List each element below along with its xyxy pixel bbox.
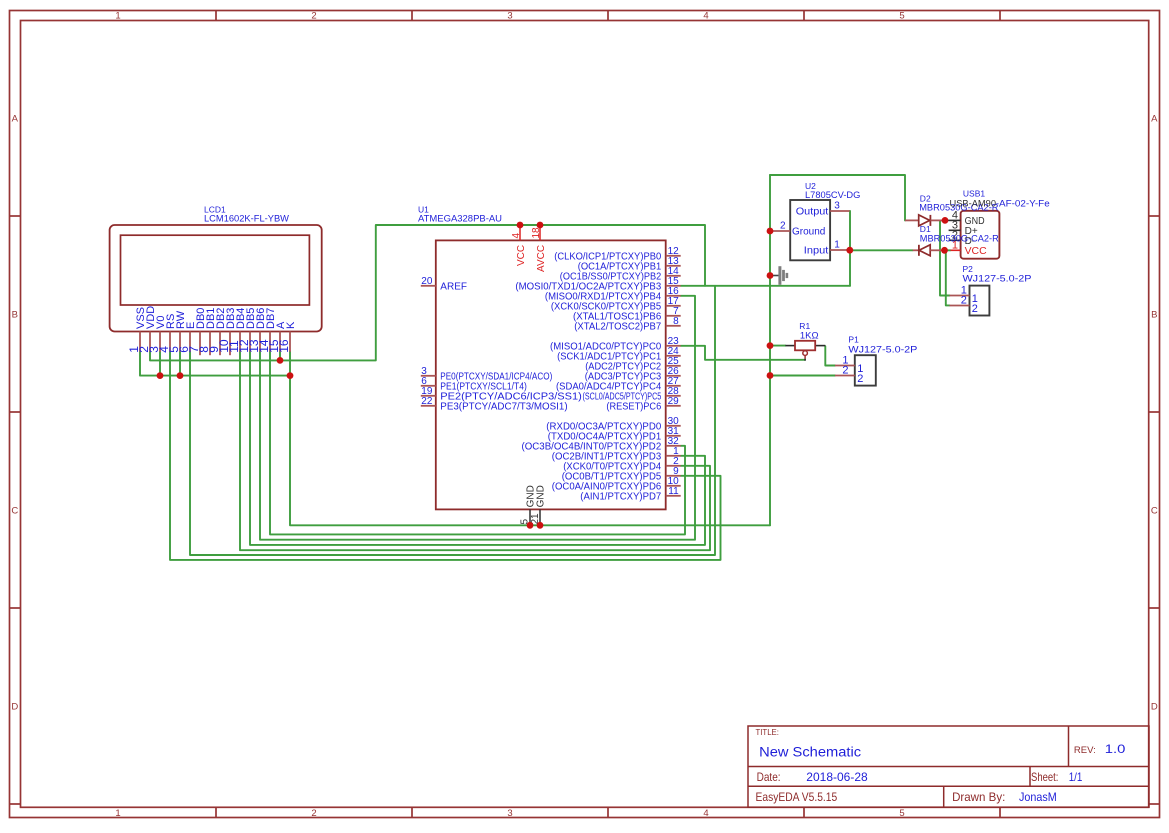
svg-text:2: 2 (842, 365, 848, 377)
svg-text:1: 1 (115, 10, 120, 21)
U1 pin 24 PC1 (666, 355, 681, 357)
U1 pin 14 PB2 (666, 275, 681, 277)
U1 pin 19 PE2( (421, 395, 436, 397)
U1 pin 26 PC3 (666, 375, 681, 377)
wire U2 output drop (849, 211, 851, 286)
LCD1 pin 6 E (189, 332, 191, 352)
svg-text:GND: GND (536, 485, 547, 507)
svg-text:2: 2 (961, 295, 967, 307)
U1 pin 20 AREF (421, 285, 436, 287)
LCD module LCD1 body (110, 225, 322, 332)
wire R1 left to GND net (770, 345, 785, 347)
svg-text:2: 2 (780, 221, 786, 232)
diode D2 (905, 219, 919, 221)
U1 pin 5 GND (529, 509, 531, 525)
LCD1 pin 12 DB5 (249, 332, 251, 352)
svg-text:5: 5 (899, 10, 904, 21)
svg-text:VCC: VCC (516, 245, 527, 266)
connector USB1 body (961, 211, 1000, 259)
svg-text:MBR0530G-CA2-R: MBR0530G-CA2-R (920, 233, 999, 244)
svg-text:REV:: REV: (1074, 745, 1096, 756)
svg-text:TITLE:: TITLE: (756, 727, 779, 737)
wire LCD E to PB3 net (190, 286, 715, 555)
svg-text:3: 3 (834, 201, 840, 212)
LCD1 pin 2 VDD (149, 332, 151, 352)
wire D1 anode to P2 pin2 (945, 250, 950, 305)
svg-text:USB-AM90: USB-AM90 (950, 199, 997, 210)
U1 pin 8 PB7 (666, 325, 681, 327)
svg-text:11: 11 (668, 486, 679, 497)
U1 pin 18 AVCC (539, 225, 541, 240)
wire LCD pin16 down to GND rail (290, 352, 770, 526)
LCD1 pin 3 V0 (159, 332, 161, 352)
wire LCD pin15 stub (279, 352, 281, 361)
P2 pin 1 (950, 295, 970, 297)
LCD1 pin 11 DB4 (239, 332, 241, 352)
svg-text:1/1: 1/1 (1069, 770, 1083, 784)
USB1 pin 2 D- (949, 239, 961, 241)
svg-text:3: 3 (507, 10, 512, 21)
LCD1 pin 14 DB7 (269, 332, 271, 352)
wire GND top loop to D2 anode (770, 175, 905, 220)
wire stub USB VCC (945, 249, 951, 251)
svg-text:LCM1602K-FL-YBW: LCM1602K-FL-YBW (204, 213, 289, 224)
LCD1 pin 16 K (289, 332, 291, 352)
svg-text:16: 16 (277, 339, 291, 353)
svg-text:29: 29 (668, 396, 680, 407)
wire LCD DB7 to U1 PD2 (270, 352, 685, 535)
svg-text:Date:: Date: (757, 770, 781, 784)
svg-text:1: 1 (115, 808, 120, 819)
U1 pin 28 PC5 (666, 395, 681, 397)
svg-text:Output: Output (796, 206, 829, 217)
svg-text:Sheet:: Sheet: (1031, 770, 1058, 784)
U1 pin 27 PC4 (666, 385, 681, 387)
U1 pin 32 PD2 (666, 445, 681, 447)
title block (748, 726, 1149, 807)
svg-text:4: 4 (703, 808, 708, 819)
U1 pin 12 PB0 (666, 255, 681, 257)
wire LCD DB4 to U1 PD4 (240, 352, 710, 550)
svg-text:New Schematic: New Schematic (759, 744, 861, 759)
svg-text:8: 8 (673, 316, 679, 327)
svg-text:AVCC: AVCC (536, 245, 547, 272)
svg-text:2: 2 (311, 808, 316, 819)
MCU U1 body (436, 240, 666, 509)
U2 pin 3 Output (830, 210, 850, 212)
wire LCD DB6 to U1 PB4 (260, 296, 695, 540)
svg-text:Ground: Ground (792, 227, 825, 238)
USB1 pin 1 VCC (951, 249, 961, 251)
LCD1 pin 7 DB0 (199, 332, 201, 356)
svg-text:(RESET)PC6: (RESET)PC6 (606, 401, 661, 412)
U1 pin 23 PC0 (666, 345, 681, 347)
svg-text:5: 5 (899, 808, 904, 819)
U1 pin 22 PE3( (421, 405, 436, 407)
wire LCD pin5 stub (179, 352, 181, 376)
svg-text:EasyEDA V5.5.15: EasyEDA V5.5.15 (756, 790, 838, 804)
svg-text:4: 4 (511, 233, 522, 239)
U1 pin 29 PC6 (666, 405, 681, 407)
wire R1 right to P1 pin1 (825, 346, 835, 365)
ground (770, 275, 779, 277)
svg-text:P2: P2 (963, 264, 974, 274)
USB1 pin 3 D+ (949, 229, 961, 231)
wire LCD VSS/V0/RW/K ground rail (140, 352, 290, 376)
svg-text:Drawn By:: Drawn By: (952, 790, 1005, 804)
svg-text:WJ127-5.0-2P: WJ127-5.0-2P (963, 274, 1032, 285)
U1 pin 11 PD7 (666, 495, 681, 497)
U1 pin 21 GND (539, 509, 541, 525)
svg-text:Input: Input (804, 245, 829, 256)
connector P1 body (855, 355, 876, 385)
svg-text:B: B (12, 310, 18, 321)
R1 wiper (803, 351, 808, 356)
svg-text:A: A (12, 114, 19, 125)
LCD1 pin 4 RS (169, 332, 171, 352)
svg-text:2: 2 (972, 303, 978, 315)
svg-text:JonasM: JonasM (1019, 790, 1057, 804)
svg-text:18: 18 (531, 227, 542, 239)
LCD1 pin 1 VSS (139, 332, 141, 352)
LCD1 pin 13 DB6 (259, 332, 261, 352)
wire VCC rail from LCD VDD to U1 VCC and down to 5V net (150, 225, 705, 360)
P1 pin 2 (835, 375, 855, 377)
wire LCD pin3 stub (159, 352, 161, 376)
svg-text:WJ127-5.0-2P: WJ127-5.0-2P (848, 345, 917, 356)
svg-text:PE3(PTCY/ADC7/T3/MOSI1): PE3(PTCY/ADC7/T3/MOSI1) (440, 401, 567, 412)
svg-text:VCC: VCC (965, 246, 987, 257)
svg-text:A: A (1151, 114, 1158, 125)
svg-text:3: 3 (507, 808, 512, 819)
U1 pin 30 PD0 (666, 425, 681, 427)
U1 pin 6 PE1( (421, 385, 436, 387)
U1 pin 4 VCC (519, 225, 521, 240)
wire GND vertical x=770 (769, 175, 771, 525)
U1 pin 3 PE0( (421, 375, 436, 377)
LCD1 pin 8 DB1 (209, 332, 211, 356)
svg-text:C: C (11, 506, 18, 517)
U1 pin 1 PD3 (666, 455, 681, 457)
wire LCD RS to U1 PD5 (170, 352, 721, 560)
wire U1 PB3 to U2 output net (681, 285, 850, 287)
LCD1 pin 5 RW (179, 332, 181, 352)
svg-text:D: D (11, 702, 18, 713)
diode D1 (913, 249, 919, 251)
wire U1 PC0 to R1 wiper (681, 346, 805, 360)
regulator U2 body (790, 200, 830, 260)
P2 pin 2 (950, 305, 970, 307)
svg-text:2018-06-28: 2018-06-28 (806, 770, 868, 784)
LCD1 pin 10 DB3 (229, 332, 231, 356)
svg-text:1.0: 1.0 (1105, 742, 1126, 756)
wire GND net to P1 pin2 (770, 375, 835, 377)
svg-text:-AF-02-Y-Fe: -AF-02-Y-Fe (996, 199, 1050, 210)
USB1 pin 4 GND (945, 219, 961, 221)
svg-text:D1: D1 (920, 224, 931, 234)
wire LCD DB5 to U1 PD3 (250, 352, 705, 545)
U1 pin 9 PD5 (666, 475, 681, 477)
svg-text:USB1: USB1 (963, 189, 985, 199)
svg-text:K: K (285, 321, 297, 329)
svg-text:AREF: AREF (440, 281, 467, 292)
U1 pin 25 PC2 (666, 365, 681, 367)
P1 pin 1 (835, 365, 855, 367)
junction dots (517, 222, 524, 229)
U2 pin 2 Ground (771, 230, 791, 232)
svg-text:22: 22 (421, 396, 433, 407)
svg-text:4: 4 (703, 10, 708, 21)
svg-text:20: 20 (421, 276, 433, 287)
svg-text:B: B (1151, 310, 1157, 321)
svg-text:1: 1 (834, 240, 840, 251)
svg-text:(XTAL2/TOSC2)PB7: (XTAL2/TOSC2)PB7 (574, 321, 661, 332)
LCD1 display window (121, 235, 310, 305)
U2 pin 1 Input (830, 249, 850, 251)
U1 pin 15 PB3 (666, 285, 681, 287)
svg-text:(AIN1/PTCXY)PD7: (AIN1/PTCXY)PD7 (580, 491, 661, 502)
U1 pin 10 PD6 (666, 485, 681, 487)
svg-text:ATMEGA328PB-AU: ATMEGA328PB-AU (418, 213, 502, 224)
svg-text:2: 2 (857, 373, 863, 385)
svg-text:R1: R1 (799, 321, 810, 331)
LCD1 pin 15 A (279, 332, 281, 352)
LCD1 pin 9 DB2 (219, 332, 221, 356)
connector P2 body (970, 286, 990, 316)
svg-text:P1: P1 (848, 334, 859, 344)
svg-text:2: 2 (311, 10, 316, 21)
U1 pin 16 PB4 (666, 295, 681, 297)
svg-text:C: C (1151, 506, 1158, 517)
U1 pin 7 PB6 (666, 315, 681, 317)
resistor R1 body (785, 345, 795, 347)
svg-text:D: D (1151, 702, 1158, 713)
U1 pin 17 PB5 (666, 305, 681, 307)
wire U2 input to D1 cathode (850, 249, 913, 251)
U1 pin 13 PB1 (666, 265, 681, 267)
wire D2 cathode to P2 pin1 (940, 220, 950, 295)
U1 pin 2 PD4 (666, 465, 681, 467)
U1 pin 31 PD1 (666, 435, 681, 437)
